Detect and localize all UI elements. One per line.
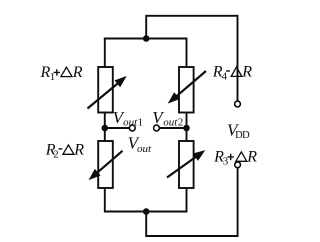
- svg-text:2: 2: [178, 117, 184, 129]
- svg-text:2: 2: [53, 148, 59, 160]
- svg-text:R: R: [241, 64, 252, 81]
- svg-text:1: 1: [138, 117, 144, 129]
- svg-text:R: R: [72, 64, 83, 81]
- svg-text:3: 3: [223, 155, 229, 167]
- svg-text:R: R: [246, 149, 257, 166]
- svg-text:DD: DD: [235, 130, 250, 141]
- svg-text:1: 1: [50, 71, 56, 83]
- svg-text:R: R: [73, 142, 84, 159]
- svg-text:out: out: [163, 117, 178, 129]
- svg-text:out: out: [137, 143, 152, 155]
- svg-text:out: out: [123, 117, 138, 129]
- svg-text:4: 4: [222, 70, 228, 82]
